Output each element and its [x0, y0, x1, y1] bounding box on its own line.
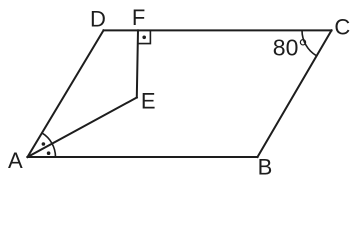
wire segment AE [28, 98, 137, 158]
wire side AB (bottom edge) [28, 156, 258, 158]
svg-text:80°: 80° [273, 35, 308, 61]
svg-text:E: E [141, 89, 156, 114]
svg-text:D: D [90, 7, 106, 32]
svg-text:F: F [132, 5, 145, 30]
dot inside right-angle mark at F [142, 36, 146, 40]
wire side AD (left edge) [28, 30, 104, 157]
right-angle mark at F [138, 30, 150, 43]
wire segment FE [137, 30, 138, 97]
angle arc at C [302, 30, 317, 55]
svg-text:A: A [8, 148, 23, 173]
wire side BC (right edge) [258, 30, 332, 157]
dot in angle EAB at A [47, 151, 51, 155]
dot in angle DAE at A [42, 142, 46, 146]
svg-text:B: B [258, 155, 273, 180]
angle arc at A [42, 133, 56, 157]
wire side DC (top edge) [104, 29, 332, 31]
svg-text:C: C [334, 15, 350, 40]
